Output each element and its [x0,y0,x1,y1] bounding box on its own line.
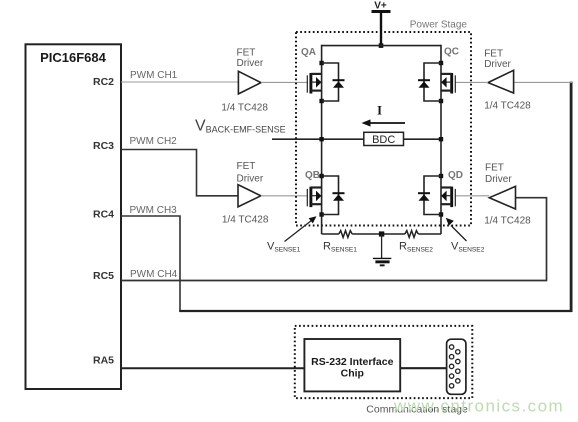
svg-text:V+: V+ [374,1,387,12]
op-amp U2A FET driver (for QA) [221,48,268,114]
node QD source junction [439,212,443,216]
svg-text:VBACK-EMF-SENSE: VBACK-EMF-SENSE [195,118,286,135]
transistor QA [307,73,321,94]
wire U2B output to QB gate [261,195,308,197]
diode QA body diode [322,63,345,101]
power V+ terminal [372,1,391,46]
wire PWM CH3 feed to U2C [514,81,572,83]
node V+ junction on top rail [379,43,384,48]
transistor QC [441,73,455,94]
wire U2D output to QD gate [455,195,489,197]
wire top rail [322,45,441,47]
svg-text:FET: FET [485,163,504,174]
diode QD body diode [418,176,441,215]
svg-text:RC2: RC2 [93,76,114,88]
communication stage dotted enclosure [295,326,473,398]
resistor R_SENSE1 [339,231,352,238]
wire PWM CH3 (RC4 down and around right side to driver U2C input) [121,216,180,311]
svg-text:FET: FET [237,161,256,172]
node ground junction [379,231,384,236]
svg-text:I: I [377,104,382,118]
svg-text:PWM CH1: PWM CH1 [130,70,178,81]
svg-text:QA: QA [301,47,316,58]
node motor right junction [439,137,443,141]
svg-text:FET: FET [237,48,256,59]
svg-text:RSENSE2: RSENSE2 [399,241,433,254]
svg-text:1/4 TC428: 1/4 TC428 [222,214,269,225]
svg-text:1/4 TC428: 1/4 TC428 [484,101,531,112]
node QB drain junction [319,174,323,178]
power stage dotted enclosure [296,32,471,226]
node QA drain junction [319,61,323,65]
op-amp U2D FET driver (for QD) [484,163,531,227]
svg-text:RC5: RC5 [93,270,114,282]
node motor left junction [319,137,323,141]
RS-232 interface chip U3 [304,339,400,391]
svg-text:1/4 TC428: 1/4 TC428 [484,215,531,226]
svg-text:PWM CH3: PWM CH3 [130,205,178,216]
transistor QB [307,187,321,208]
wire PWM CH3 bottom run [179,310,572,312]
wire back-EMF sense / motor left rail [272,138,364,140]
node QA source junction [319,99,323,103]
node QC source junction [439,99,443,103]
arrow V_SENSE2 pointer [446,218,467,241]
svg-text:RSENSE1: RSENSE1 [323,241,357,254]
motor M1 BDC [364,132,404,146]
svg-text:1/4 TC428: 1/4 TC428 [221,103,268,114]
wire U2C output to QC gate [455,81,488,83]
svg-text:RC3: RC3 [93,140,114,152]
diode QB body diode [322,176,345,215]
svg-text:PWM CH4: PWM CH4 [130,269,178,280]
node QB source junction [319,212,323,216]
svg-text:RS-232 Interface: RS-232 Interface [311,356,393,368]
wire motor right rail [404,138,442,140]
svg-text:PWM CH2: PWM CH2 [130,136,178,147]
wire left bridge leg [321,45,323,234]
op-amp U2C FET driver (for QC) [484,49,531,112]
wire rail between resistors [352,233,405,235]
wire right bridge leg [440,45,442,234]
svg-text:VSENSE1: VSENSE1 [267,241,301,254]
svg-text:Driver: Driver [485,174,512,185]
wire PWM CH3 right riser [570,82,573,312]
svg-text:QB: QB [305,170,320,181]
wire U2A output to QA gate [261,81,307,83]
wire bottom sense rail [322,233,339,235]
resistor R_SENSE2 [405,231,418,238]
transistor QD [441,187,455,208]
wire rail to QD leg [418,233,441,235]
svg-text:Chip: Chip [341,368,364,380]
svg-text:RA5: RA5 [93,355,114,367]
svg-text:Driver: Driver [237,174,264,185]
ground [373,234,391,266]
node QD drain junction [439,174,443,178]
svg-text:PIC16F684: PIC16F684 [40,50,107,65]
microcontroller U1 PIC16F684 [26,44,122,389]
op-amp U2B FET driver (for QB) [222,161,269,225]
svg-text:Driver: Driver [484,59,511,70]
diode QC body diode [418,63,441,101]
wire PWM CH4 (RC5 around to driver U2D input) [121,198,547,281]
svg-text:Driver: Driver [237,58,264,69]
svg-text:FET: FET [484,49,503,60]
svg-text:RC4: RC4 [93,209,114,221]
svg-text:Power Stage: Power Stage [410,20,468,31]
svg-text:QD: QD [448,170,463,181]
svg-text:VSENSE2: VSENSE2 [451,241,485,254]
node QC drain junction [439,61,443,65]
wire PWM CH2 (RC3 to driver U2B input) [121,150,238,196]
wire PWM CH1 (RC2 to driver U2A input) [121,81,238,83]
label I with current arrow [362,104,406,127]
svg-text:QC: QC [444,47,459,58]
connector J1 DB9 [447,339,466,394]
wire U3 to DB9 connector [400,367,447,369]
svg-text:www.cntronics.com: www.cntronics.com [393,397,564,416]
wire RA5 to RS-232 chip [121,367,305,369]
svg-text:BDC: BDC [372,134,395,146]
arrow V_SENSE1 pointer [285,216,317,241]
